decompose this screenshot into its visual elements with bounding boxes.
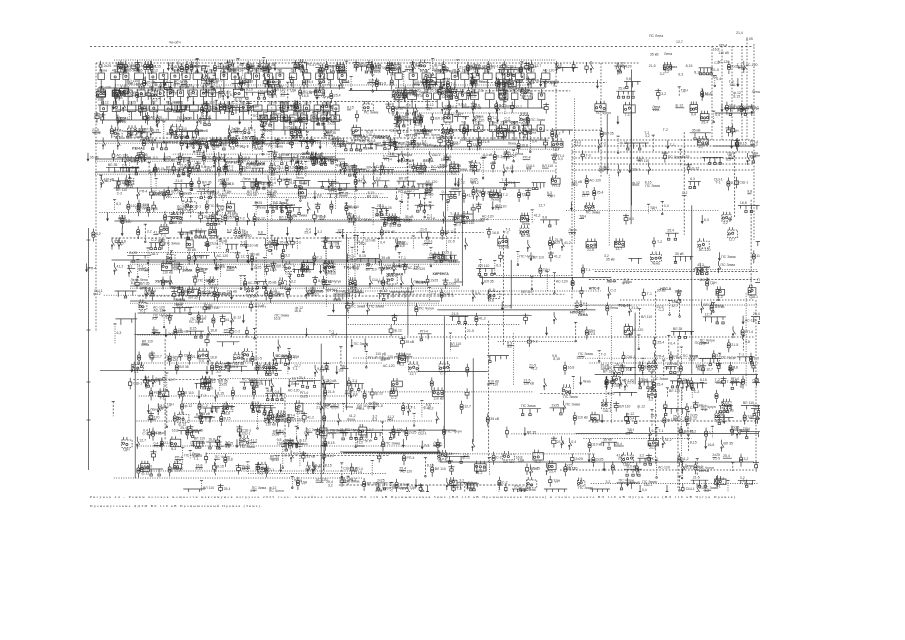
label N675 [135,203,150,210]
wire stub 456 [128,160,139,179]
bus rail [114,59,556,61]
substation U1066 [624,324,632,339]
busbar B339 [182,131,204,138]
busbar B1230 [670,381,690,388]
svg-text:25,4: 25,4 [217,65,224,69]
busbar B589 [197,187,215,199]
svg-text:12,7: 12,7 [454,141,461,145]
substation U166 [392,89,403,101]
substation U100 [663,62,671,74]
pocket right dashed edge [600,63,602,178]
svg-text:110 кВ: 110 кВ [499,246,510,250]
load H462 [143,153,157,162]
disconnector QS269 [397,111,400,123]
svg-text:110 кВ: 110 кВ [139,268,150,272]
svg-text:6,3: 6,3 [117,331,122,335]
label N67 [432,66,442,73]
svg-text:СШ-1: СШ-1 [269,95,278,99]
svg-text:ВЛ 110: ВЛ 110 [641,315,652,319]
busbar B809 [418,228,431,240]
bay cell K49 [280,101,289,121]
svg-text:ПС Зима: ПС Зима [268,144,282,148]
label N1208 [487,380,499,387]
substation U1327 [715,410,724,423]
label N1499 [723,454,732,458]
breaker Q54 [353,60,366,71]
label N817 [504,227,511,234]
svg-text:16,8: 16,8 [740,201,747,205]
svg-text:12,7: 12,7 [615,247,622,251]
breaker Q365 [275,138,292,148]
breaker Q472 [179,153,182,164]
bay cell K45 [225,101,233,121]
load H667 [106,213,109,222]
substation U1470 [502,451,514,464]
wire [348,324,521,326]
load H1247 [147,404,158,413]
wire stub 124 [168,87,178,99]
svg-text:21-5: 21-5 [448,239,455,243]
busbar B1190 [297,376,321,388]
busbar B508 [313,152,336,164]
wire [325,248,327,306]
wire [683,132,685,235]
busbar B700 [279,203,302,215]
transformer T1152 [729,362,738,375]
label N5 [125,65,141,72]
transformer T304 [526,115,545,128]
transformer T1460 [431,464,446,477]
disconnector QS327 [117,138,120,150]
svg-text:ВЛ 110: ВЛ 110 [208,306,219,310]
bay cell K10 [208,69,217,89]
label N1339 [142,428,148,435]
label N602 [247,190,258,197]
wire stub 886 [398,253,406,267]
busbar B283 [454,112,469,122]
disconnector QS818 [527,240,530,252]
substation U939 [279,277,287,290]
wire stub 490 [238,165,241,174]
wire [573,99,575,244]
label N520 [383,154,392,161]
transformer T598 [255,178,271,191]
svg-text:СШ-1: СШ-1 [632,167,641,171]
label N211 [733,91,741,98]
busbar B391 [382,143,398,150]
label N798 [337,229,344,233]
label N331 [138,128,146,135]
substation U284 [444,111,453,126]
bay cell K67 [148,86,155,106]
label N404 [420,129,431,133]
wire stub 1517 [390,482,408,495]
label N439 [644,131,650,138]
bay cell K52 [314,101,320,120]
wire stub 299 [503,102,506,116]
disconnector QS1476 [546,463,549,475]
label N1079 [148,354,154,361]
left feeder line [88,228,90,470]
wire [100,370,282,372]
svg-text:Лена: Лена [254,147,262,151]
wire stub 358 [235,136,243,146]
svg-text:РП-4: РП-4 [341,80,349,84]
breaker Q1068 [653,337,664,348]
svg-text:Т-2: Т-2 [532,340,537,344]
svg-text:21-5: 21-5 [587,248,594,252]
breaker Q704 [288,211,297,222]
busbar B242 [231,103,245,115]
svg-text:ПС Зима: ПС Зима [351,305,365,309]
bay cell K69 [167,86,174,105]
transformer T191 [502,78,514,91]
busbar B637 [449,187,461,199]
substation U495 [269,162,279,176]
busbar B761 [149,238,162,250]
transformer T29 [213,62,224,75]
wire stub 1108 [286,364,289,375]
breaker Q432 [543,138,549,149]
breaker Q1504 [218,484,231,495]
breaker Q556 [581,150,591,160]
bay cell K36 [112,101,120,120]
label N916 [140,278,148,282]
load H1385 [402,439,405,448]
wire [208,139,319,141]
label N235 [179,105,189,109]
busbar B202 [540,81,559,87]
svg-text:С-2: С-2 [714,61,720,65]
breaker Q1048 [246,327,249,338]
wire stub 945 [288,277,296,291]
busbar B239 [199,119,211,126]
wire [324,189,419,191]
wire stub 504 [304,161,307,176]
breaker Q1500 [753,461,759,472]
load H857 [247,255,250,264]
substation U3 [117,62,125,77]
bay cell K37 [127,101,136,121]
breaker Q673 [152,201,156,212]
wire stub 964 [428,288,436,301]
label N1292 [367,402,378,409]
transformer T8 [150,61,161,74]
label N1459 [399,466,412,473]
wire [350,129,602,131]
disconnector QS1452 [312,462,322,474]
busbar B956 [345,288,364,297]
disconnector QS1527 [446,478,449,490]
svg-text:16,8: 16,8 [151,207,158,211]
bay cell K88 [489,121,498,141]
wire stub 159 [350,77,353,90]
label N173 [413,91,427,98]
bus bundle 6 [572,169,754,171]
svg-text:21-5: 21-5 [175,179,182,183]
busbar B963 [390,292,414,298]
svg-text:0,4: 0,4 [715,113,720,117]
transformer T1223 [652,379,663,392]
transformer T1422 [137,465,140,478]
svg-text:Т-1: Т-1 [428,84,433,88]
wire stub 196 [504,86,512,99]
wire stub 858 [246,250,260,262]
label N942 [270,289,284,296]
label N698 [279,216,290,220]
breaker Q374 [290,138,294,148]
substation U815 [498,236,510,250]
substation U1535 [527,477,537,492]
bay cell K92 [537,121,544,140]
disconnector QS160 [339,78,350,90]
disconnector QS514 [340,162,343,174]
breaker Q1238 [721,377,732,388]
label N258 [294,117,303,124]
label N1001 [206,304,213,311]
bay cell K90 [510,121,519,141]
substation U193 [499,87,509,102]
disconnector QS524 [401,151,412,163]
wire [691,205,693,373]
transformer T546 [493,151,502,164]
wire stub 1425 [181,448,199,466]
breaker Q1354 [215,436,219,447]
svg-text:2x25: 2x25 [184,191,192,195]
svg-text:ф.12: ф.12 [434,69,442,73]
svg-text:6,3: 6,3 [726,158,731,162]
wire [734,152,736,217]
svg-text:Т-2: Т-2 [586,153,591,157]
disconnector QS278 [419,113,422,125]
substation U1335 [122,437,133,451]
breaker Q951 [310,286,324,296]
busbar B894 [476,264,495,276]
label N879 [353,264,361,271]
disconnector QS853 [214,252,229,264]
label N183 [443,77,451,84]
svg-text:ПС Чугун: ПС Чугун [315,95,330,99]
label N832 [127,264,135,268]
svg-text:ВЛ 110: ВЛ 110 [366,267,377,271]
label N15 [181,67,188,71]
breaker Q277 [431,113,445,124]
busbar B574 [113,181,134,188]
svg-text:110 кВ: 110 кВ [718,51,729,55]
busbar B638 [440,190,457,202]
svg-text:Т-2: Т-2 [503,193,508,197]
transformer T901 [581,265,590,278]
busbar B1484 [624,465,642,477]
breaker Q95 [585,62,588,73]
busbar B701 [274,201,293,213]
disconnector QS1177 [215,390,225,402]
busbar B949 [333,290,348,302]
load H1032 [742,316,757,325]
wire stub 1031 [712,303,723,313]
breaker Q461 [153,164,157,176]
svg-text:ПС Чугун: ПС Чугун [668,155,683,159]
wire [610,316,612,423]
label N714 [347,217,355,224]
busbar B1345 [178,426,201,438]
disconnector QS694 [247,213,250,225]
label N535 [449,164,461,171]
svg-text:С-2: С-2 [610,289,616,293]
label N475 [197,152,205,156]
label N728 [427,213,435,220]
wire [461,174,463,287]
busbar B744 [540,215,559,227]
breaker Q517 [351,164,362,175]
label N595 [218,179,231,186]
busbar B566 [702,157,723,164]
bay cell K7 [171,69,180,89]
svg-text:21-5: 21-5 [377,204,384,208]
transformer T282 [420,114,423,127]
label N1058 [450,342,461,346]
wire stub 496 [267,152,270,160]
substation U736 [462,211,474,225]
label N739 [494,204,501,211]
svg-text:2x25: 2x25 [431,279,439,283]
transformer T1142 [679,363,682,376]
label N660 [645,181,660,188]
wire stub 1368 [295,426,298,440]
svg-text:2x25: 2x25 [218,103,226,107]
breaker Q1002 [203,303,219,313]
wire stub 628 [400,187,410,202]
bay cell K61 [321,111,327,130]
label N1038 [175,328,183,332]
load H751 [701,215,709,224]
breaker Q1 [99,61,111,71]
wire stub 1507 [291,476,302,488]
svg-text:ПС Чугун: ПС Чугун [503,120,518,124]
label N459 [138,153,151,160]
load H1291 [373,401,383,410]
label N913 [131,278,139,285]
disconnector QS1413 [721,440,733,452]
label N553 [542,164,553,168]
svg-text:АС-120: АС-120 [491,65,503,69]
load H379 [319,140,322,149]
label N1283 [331,402,340,406]
load H77 [467,64,477,73]
label N39 [262,66,270,73]
disconnector QS624 [373,176,376,188]
breaker Q924 [192,275,213,286]
bus rail [662,495,734,497]
wire stub 730 [429,202,432,211]
label N975 [521,290,532,294]
breaker Q1447 [300,451,315,462]
label N310 [675,104,684,108]
label N1374 [321,441,327,448]
transformer T1508 [296,477,307,490]
load H787 [276,237,289,246]
busbar B50 [325,66,341,73]
bay cell K18 [304,69,311,88]
wire stub 1549 [678,476,681,491]
breaker Q12 [135,61,153,72]
wire stub 802 [362,233,376,253]
label N1541 [606,480,611,484]
load H180 [443,78,446,87]
wire stub 376 [305,123,308,142]
svg-text:АС-120: АС-120 [741,106,753,110]
breaker Q445 [731,124,735,135]
breaker Q1019 [523,313,529,324]
svg-text:0,4: 0,4 [475,292,480,296]
svg-text:41,2: 41,2 [117,265,124,269]
svg-text:Т-1: Т-1 [176,119,181,123]
busbar B1464 [444,452,467,464]
svg-text:ф.12: ф.12 [471,181,479,185]
wire [593,269,759,271]
wire [225,67,305,69]
transformer T17 [180,63,189,76]
wire stub 1059 [464,324,474,341]
bay cell K72 [200,86,206,106]
svg-text:9,8: 9,8 [290,181,295,185]
transformer T142 [240,76,252,89]
wire stub 438 [617,136,628,153]
wire stub 313 [712,111,720,123]
wire stub 582 [155,178,158,189]
svg-text:21-5: 21-5 [625,334,632,338]
svg-text:СШ-1: СШ-1 [192,205,201,209]
substation U1475 [548,460,556,473]
svg-text:9,8: 9,8 [204,241,209,245]
substation U1344 [170,436,181,451]
svg-text:110 кВ: 110 кВ [162,271,173,275]
substation U741 [521,213,530,226]
svg-text:110 кВ: 110 кВ [248,243,259,247]
breaker Q134 [219,87,231,97]
disconnector QS59 [371,61,374,73]
transformer T1065 [585,327,588,340]
svg-text:110 кВ: 110 кВ [249,253,260,257]
transformer T80 [466,62,477,75]
transformer T813 [441,227,456,240]
substation U363 [253,139,263,152]
substation U311 [690,102,698,117]
svg-text:41,2: 41,2 [534,214,541,218]
svg-text:6,3: 6,3 [451,172,456,176]
bus rail [112,259,459,261]
transformer T649 [498,189,507,202]
disconnector QS103 [743,61,758,73]
substation U824 [586,239,597,252]
busbar B252 [277,101,296,113]
label N1000 [189,317,206,324]
breaker Q1136 [638,361,641,372]
transformer T922 [161,277,170,290]
svg-text:6,3: 6,3 [116,202,121,206]
disconnector QS1023 [629,304,639,316]
top bus line [98,104,210,106]
wire [407,103,409,211]
svg-text:12,7: 12,7 [515,105,522,109]
label N1085 [166,355,181,362]
label N146 [280,90,289,97]
transformer T114 [136,89,147,102]
svg-text:Т-1: Т-1 [625,113,630,117]
breaker Q860 [235,251,248,262]
busbar B25 [191,62,208,74]
substation U280 [414,114,423,127]
